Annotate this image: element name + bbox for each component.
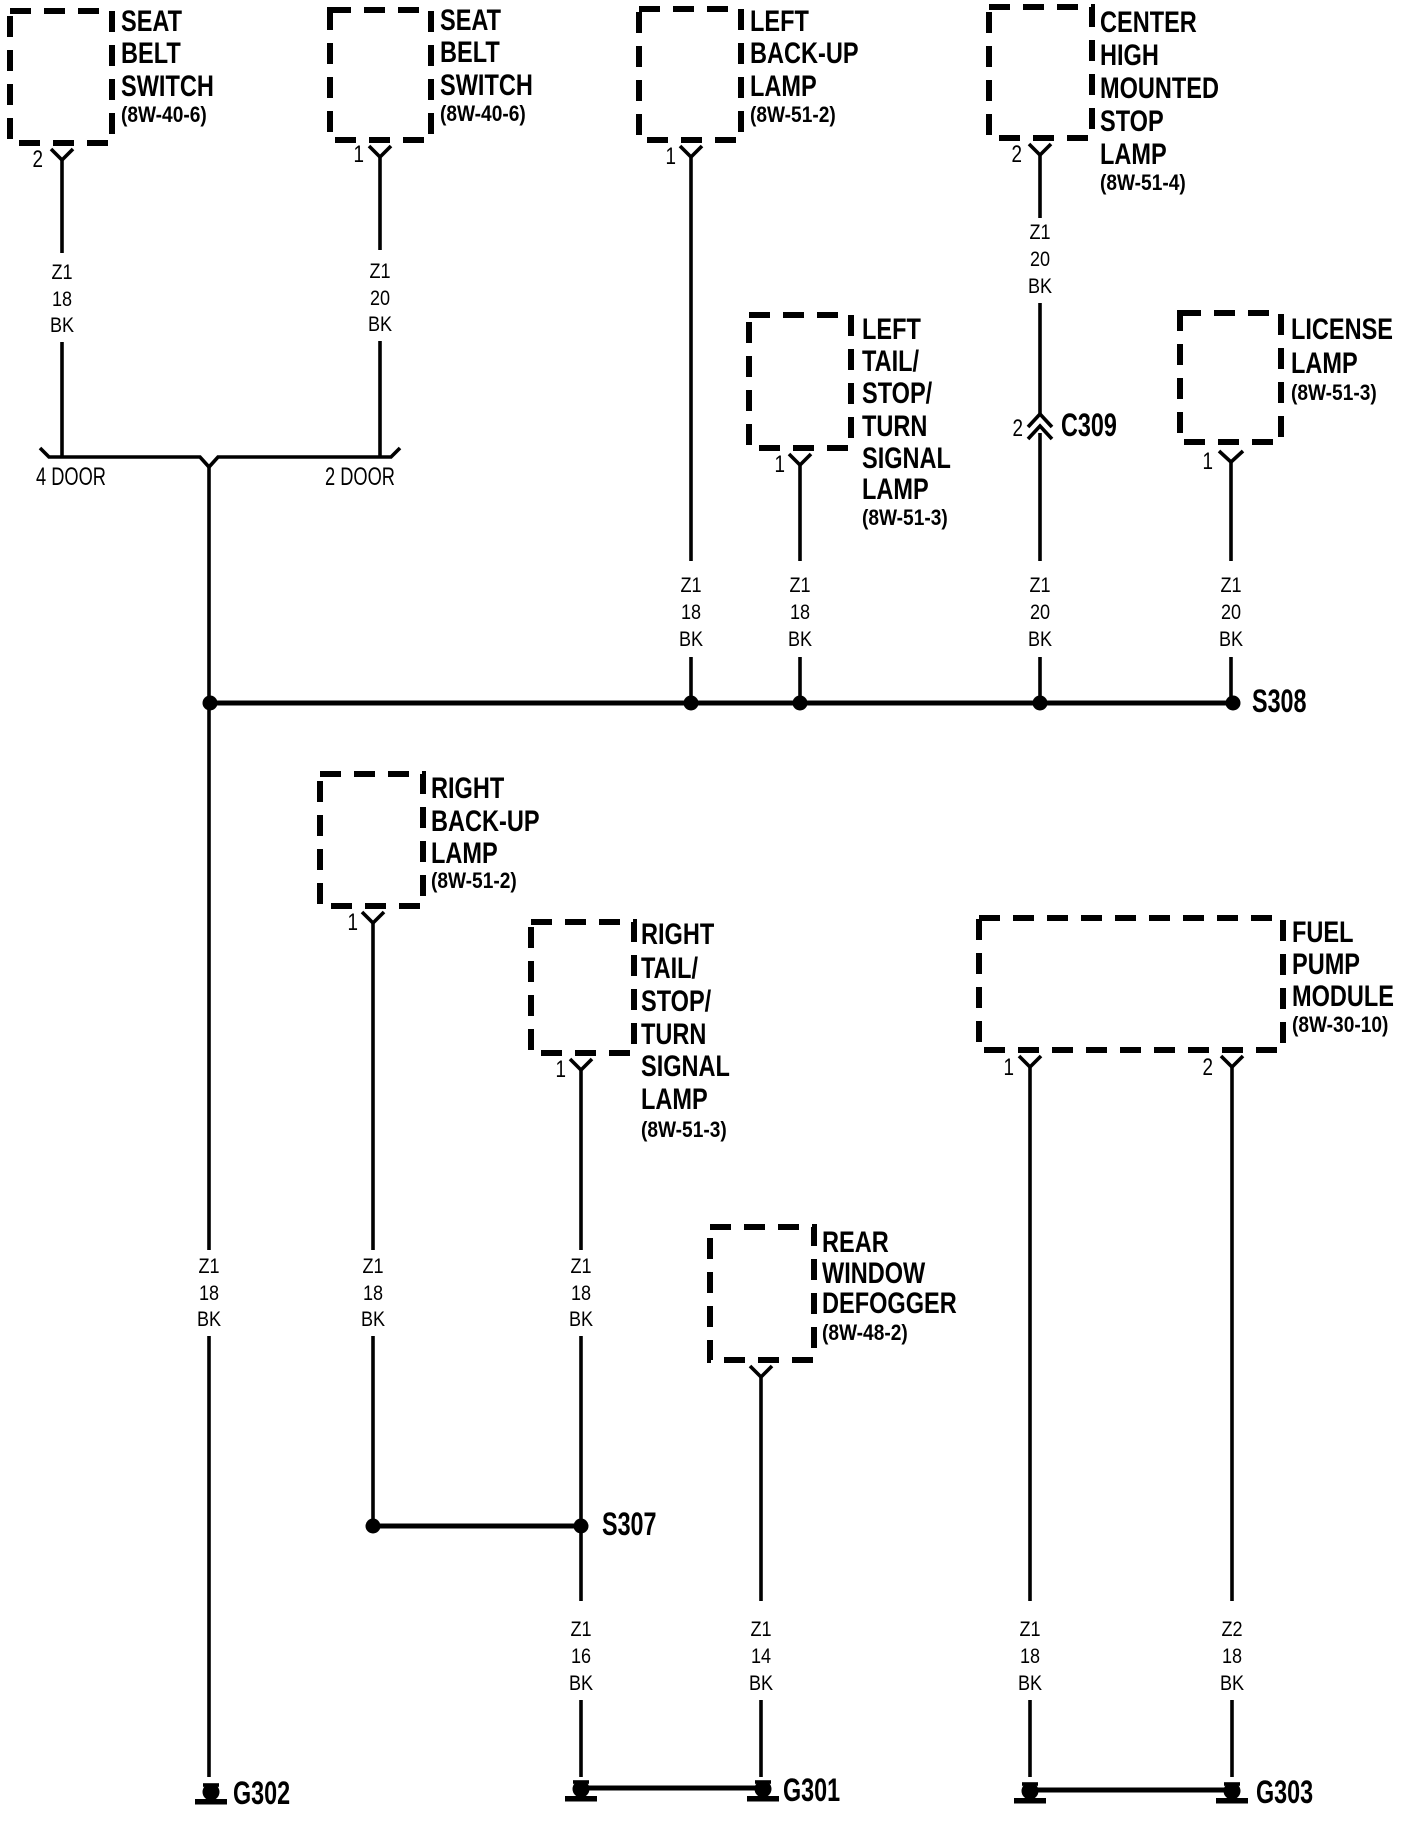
svg-text:(8W-51-2): (8W-51-2): [750, 103, 836, 128]
center high mounted stop lamp label: [1100, 5, 1219, 195]
svg-text:1: 1: [354, 140, 364, 168]
seat belt switch (2-door) box: [330, 10, 431, 140]
svg-text:LICENSE: LICENSE: [1291, 312, 1393, 345]
svg-text:SWITCH: SWITCH: [121, 69, 214, 102]
svg-text:BK: BK: [361, 1308, 386, 1332]
pin 2 of center high mounted stop lamp: [1012, 140, 1022, 168]
pin 1 of left back-up lamp: [666, 142, 676, 170]
svg-text:2 DOOR: 2 DOOR: [325, 462, 395, 491]
connector at left back-up lamp: [680, 146, 702, 157]
license lamp label: [1291, 312, 1393, 405]
wire Z1 18 BK from left tail/stop/turn signal lamp: [788, 465, 813, 703]
svg-text:BK: BK: [1028, 628, 1053, 652]
ground G303 name: [1256, 1774, 1313, 1809]
4 DOOR branch label: [36, 462, 106, 491]
svg-text:LAMP: LAMP: [1291, 346, 1358, 379]
fuel pump module box: [979, 918, 1283, 1050]
connector C309 name: [1061, 407, 1117, 442]
svg-text:SIGNAL: SIGNAL: [641, 1049, 730, 1082]
left back-up lamp label: [750, 4, 859, 127]
svg-text:20: 20: [1030, 601, 1050, 625]
svg-text:2: 2: [1013, 414, 1023, 442]
svg-text:SIGNAL: SIGNAL: [862, 441, 951, 474]
2 DOOR branch label: [325, 462, 395, 491]
seat belt switch (4-door) box: [10, 11, 112, 143]
connector at left tail/stop/turn signal lamp: [789, 454, 811, 465]
svg-text:18: 18: [363, 1282, 383, 1306]
svg-text:G303: G303: [1256, 1774, 1313, 1809]
svg-text:FUEL: FUEL: [1292, 915, 1353, 948]
svg-text:1: 1: [1203, 447, 1213, 475]
svg-text:LAMP: LAMP: [862, 472, 929, 505]
license lamp box: [1180, 313, 1281, 442]
in-line connector C309: [1028, 414, 1052, 439]
svg-text:1: 1: [556, 1055, 566, 1083]
wire Z1 16 BK from S307 to G301: [569, 1526, 594, 1777]
splice junction left tail lamp wire: [793, 696, 808, 711]
ground G302 name: [233, 1775, 290, 1810]
wire Z1 18 BK from right tail lamp to S307: [569, 1070, 594, 1526]
svg-text:Z1: Z1: [1019, 1618, 1040, 1642]
svg-text:18: 18: [52, 288, 72, 312]
svg-text:MOUNTED: MOUNTED: [1100, 71, 1219, 104]
ground G301 left symbol: [565, 1781, 597, 1802]
ground G301 name: [783, 1772, 840, 1807]
svg-text:SWITCH: SWITCH: [440, 68, 533, 101]
svg-text:LEFT: LEFT: [862, 312, 921, 345]
svg-text:Z1: Z1: [1220, 574, 1241, 598]
connector at right back-up lamp: [362, 912, 384, 923]
svg-text:STOP/: STOP/: [641, 984, 712, 1017]
svg-text:REAR: REAR: [822, 1225, 889, 1258]
svg-text:RIGHT: RIGHT: [641, 917, 715, 950]
svg-text:BK: BK: [679, 628, 704, 652]
seat belt switch (2-door) label: [440, 3, 533, 126]
svg-text:LAMP: LAMP: [1100, 137, 1167, 170]
svg-text:Z1: Z1: [51, 261, 72, 285]
splice S307 bus: [373, 1524, 581, 1529]
pin 1 of fuel pump module: [1004, 1053, 1014, 1081]
wire Z1 20 BK from seat belt switch (2-door): [368, 157, 393, 457]
wire Z1 18 BK from right back-up lamp to S307: [361, 923, 386, 1526]
svg-text:TAIL/: TAIL/: [862, 344, 920, 377]
splice junction right back-up wire: [366, 1519, 381, 1534]
svg-text:(8W-48-2): (8W-48-2): [822, 1321, 908, 1346]
ground G302 symbol: [195, 1784, 227, 1805]
svg-text:18: 18: [681, 601, 701, 625]
svg-text:18: 18: [1020, 1645, 1040, 1669]
svg-text:RIGHT: RIGHT: [431, 771, 505, 804]
svg-text:LEFT: LEFT: [750, 4, 809, 37]
svg-text:20: 20: [370, 287, 390, 311]
pin 1 of left tail/stop/turn signal lamp: [775, 450, 785, 478]
splice S308 bus: [210, 701, 1233, 706]
svg-text:20: 20: [1030, 248, 1050, 272]
svg-text:18: 18: [571, 1282, 591, 1306]
svg-text:S308: S308: [1252, 683, 1307, 718]
svg-text:Z2: Z2: [1221, 1618, 1242, 1642]
svg-text:Z1: Z1: [1029, 221, 1050, 245]
splice junction at main wire: [203, 696, 218, 711]
svg-text:Z1: Z1: [570, 1255, 591, 1279]
connector at fuel pump module pin 1: [1019, 1056, 1041, 1067]
svg-text:DEFOGGER: DEFOGGER: [822, 1286, 957, 1319]
splice S308 name: [1252, 683, 1307, 718]
splice junction right tail wire: [574, 1519, 589, 1534]
svg-text:Z1: Z1: [789, 574, 810, 598]
connector at seat belt switch (2-door): [369, 146, 391, 157]
svg-text:LAMP: LAMP: [641, 1082, 708, 1115]
wire Z2 18 BK from fuel pump module pin 2 to G303: [1220, 1067, 1245, 1777]
svg-text:(8W-51-4): (8W-51-4): [1100, 171, 1186, 196]
svg-text:MODULE: MODULE: [1292, 979, 1394, 1012]
seat belt switch (4-door) label: [121, 4, 214, 127]
ground G303 right symbol: [1216, 1783, 1248, 1804]
left tail/stop/turn signal lamp label: [862, 312, 951, 530]
wire Z1 14 BK from rear window defogger to G301: [749, 1377, 774, 1777]
svg-text:CENTER: CENTER: [1100, 5, 1197, 38]
svg-text:PUMP: PUMP: [1292, 947, 1360, 980]
svg-text:(8W-51-3): (8W-51-3): [641, 1118, 727, 1143]
svg-text:TURN: TURN: [641, 1017, 706, 1050]
svg-text:SEAT: SEAT: [440, 3, 501, 36]
svg-text:2: 2: [1012, 140, 1022, 168]
svg-text:1: 1: [666, 142, 676, 170]
right back-up lamp box: [320, 774, 423, 906]
connector at right tail/stop/turn signal lamp: [570, 1059, 592, 1070]
ground G301 right symbol: [747, 1781, 779, 1802]
svg-text:STOP: STOP: [1100, 104, 1164, 137]
ground G303 tie line: [1030, 1788, 1232, 1793]
svg-text:BK: BK: [749, 1672, 774, 1696]
svg-text:TURN: TURN: [862, 409, 927, 442]
svg-text:BK: BK: [569, 1308, 594, 1332]
svg-text:Z1: Z1: [369, 260, 390, 284]
svg-text:(8W-30-10): (8W-30-10): [1292, 1013, 1388, 1038]
svg-text:(8W-40-6): (8W-40-6): [121, 103, 207, 128]
svg-text:BK: BK: [1028, 275, 1053, 299]
wire Z1 20 BK from center high mounted stop lamp to C309: [1028, 155, 1053, 414]
svg-text:20: 20: [1221, 601, 1241, 625]
svg-text:BK: BK: [569, 1672, 594, 1696]
svg-text:TAIL/: TAIL/: [641, 951, 699, 984]
svg-text:(8W-40-6): (8W-40-6): [440, 102, 526, 127]
svg-text:Z1: Z1: [1029, 574, 1050, 598]
svg-text:SEAT: SEAT: [121, 4, 182, 37]
connector at center high mounted stop lamp: [1029, 144, 1051, 155]
splice junction license lamp wire: [1226, 696, 1241, 711]
svg-text:2: 2: [1203, 1053, 1213, 1081]
connector at rear window defogger: [750, 1366, 772, 1377]
svg-text:1: 1: [775, 450, 785, 478]
svg-text:16: 16: [571, 1645, 591, 1669]
right tail/stop/turn signal lamp box: [531, 922, 634, 1053]
svg-text:LAMP: LAMP: [750, 69, 817, 102]
svg-text:1: 1: [348, 908, 358, 936]
svg-text:BK: BK: [368, 313, 393, 337]
svg-text:BK: BK: [50, 314, 75, 338]
rear window defogger box: [710, 1227, 814, 1360]
svg-text:BK: BK: [1219, 628, 1244, 652]
connector at seat belt switch (4-door): [51, 149, 73, 160]
svg-text:2: 2: [33, 145, 43, 173]
svg-text:BK: BK: [788, 628, 813, 652]
pin 1 of seat belt switch (2-door): [354, 140, 364, 168]
splice S307 name: [602, 1506, 657, 1541]
svg-text:Z1: Z1: [680, 574, 701, 598]
pin 1 of license lamp: [1203, 447, 1213, 475]
svg-text:1: 1: [1004, 1053, 1014, 1081]
wire Z1 18 BK from seat belt switch (4-door): [50, 160, 75, 457]
svg-text:LAMP: LAMP: [431, 836, 498, 869]
svg-text:14: 14: [751, 1645, 771, 1669]
right back-up lamp label: [431, 771, 540, 893]
svg-text:BACK-UP: BACK-UP: [431, 804, 540, 837]
svg-text:G301: G301: [783, 1772, 840, 1807]
svg-text:BK: BK: [1018, 1672, 1043, 1696]
svg-text:Z1: Z1: [362, 1255, 383, 1279]
svg-text:(8W-51-3): (8W-51-3): [862, 506, 948, 531]
splice junction center stop lamp wire: [1033, 696, 1048, 711]
splice junction left back-up lamp wire: [684, 696, 699, 711]
wire Z1 18 BK from fuel pump module pin 1 to G303: [1018, 1067, 1043, 1777]
splice bracket joining 4-door and 2-door wires: [40, 448, 400, 467]
svg-text:BELT: BELT: [121, 36, 181, 69]
center high mounted stop lamp box: [989, 7, 1092, 138]
svg-text:Z1: Z1: [198, 1255, 219, 1279]
main ground wire from 4-door/2-door splice down to G302: [197, 467, 222, 1777]
svg-text:WINDOW: WINDOW: [822, 1256, 926, 1289]
svg-text:Z1: Z1: [750, 1618, 771, 1642]
svg-text:18: 18: [199, 1282, 219, 1306]
pin 2 of seat belt switch (4-door): [33, 145, 43, 173]
connector at license lamp: [1219, 451, 1243, 462]
svg-text:BACK-UP: BACK-UP: [750, 36, 859, 69]
svg-text:18: 18: [790, 601, 810, 625]
svg-text:Z1: Z1: [570, 1618, 591, 1642]
svg-text:C309: C309: [1061, 407, 1117, 442]
rear window defogger label: [822, 1225, 957, 1345]
svg-text:HIGH: HIGH: [1100, 38, 1159, 71]
wire Z1 18 BK from left back-up lamp: [679, 157, 704, 703]
connector at fuel pump module pin 2: [1221, 1056, 1243, 1067]
wire Z1 20 BK from C309 to splice S308: [1028, 433, 1053, 703]
pin 1 of right tail/stop/turn signal lamp: [556, 1055, 566, 1083]
svg-text:(8W-51-2): (8W-51-2): [431, 869, 517, 894]
ground G301 tie line: [581, 1786, 763, 1791]
right tail/stop/turn signal lamp label: [641, 917, 730, 1142]
svg-text:(8W-51-3): (8W-51-3): [1291, 381, 1377, 406]
svg-text:BELT: BELT: [440, 35, 500, 68]
wire Z1 20 BK from license lamp: [1219, 462, 1244, 703]
svg-text:G302: G302: [233, 1775, 290, 1810]
left back-up lamp box: [639, 9, 741, 140]
left tail/stop/turn signal lamp box: [749, 315, 851, 448]
fuel pump module label: [1292, 915, 1394, 1037]
ground G303 left symbol: [1014, 1783, 1046, 1804]
svg-text:STOP/: STOP/: [862, 376, 933, 409]
svg-text:4 DOOR: 4 DOOR: [36, 462, 106, 491]
pin 1 of right back-up lamp: [348, 908, 358, 936]
svg-text:BK: BK: [197, 1308, 222, 1332]
pin 2 of connector C309: [1013, 414, 1023, 442]
pin 2 of fuel pump module: [1203, 1053, 1213, 1081]
svg-text:18: 18: [1222, 1645, 1242, 1669]
svg-text:S307: S307: [602, 1506, 657, 1541]
svg-text:BK: BK: [1220, 1672, 1245, 1696]
